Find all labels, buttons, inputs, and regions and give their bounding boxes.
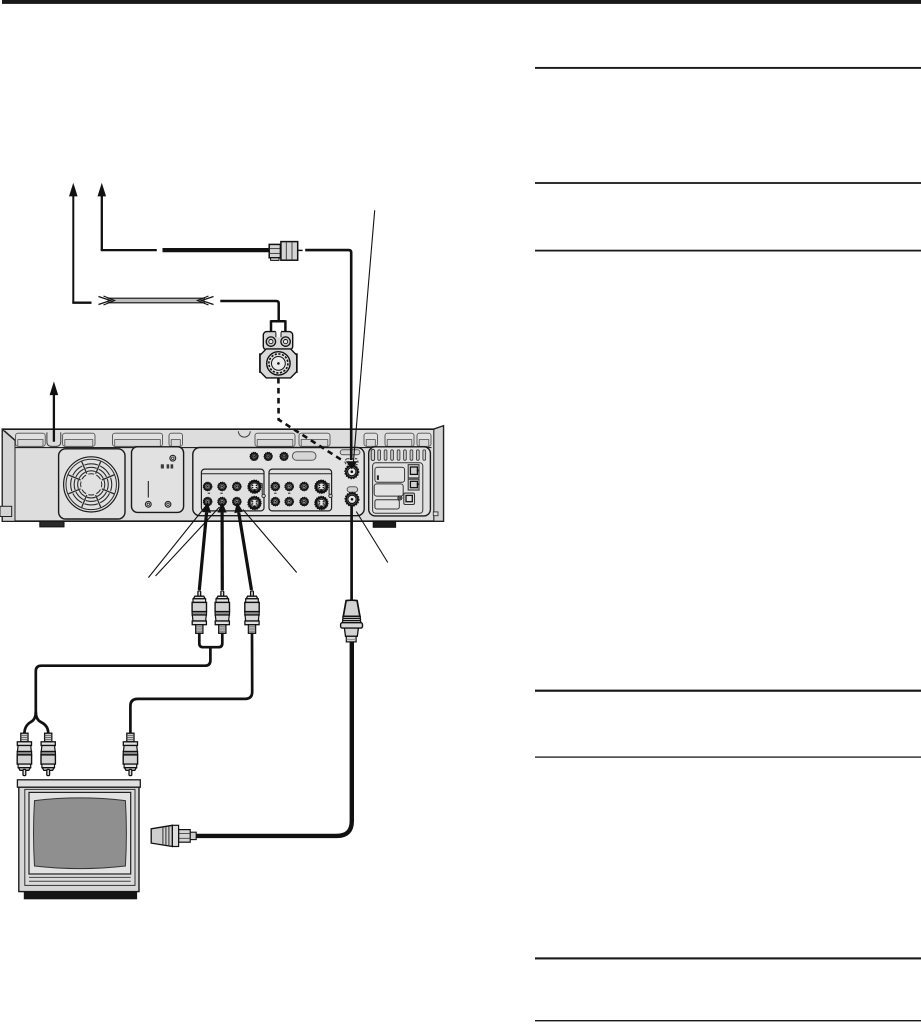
300-to-75 ohm matching transformer <box>260 331 298 378</box>
coaxial cable segment <box>163 248 270 252</box>
AV OUT jack L2 bottom <box>218 497 227 506</box>
AV jack R3 top <box>300 482 309 491</box>
VCR rear panel body <box>2 426 443 521</box>
right column horizontal rule 7 <box>535 1020 921 1021</box>
cable hook notch on VCR top <box>238 431 250 437</box>
merged AV cable to TV plugs <box>36 648 211 711</box>
audio jack T2 <box>264 452 272 460</box>
audio jack T1 <box>250 452 258 460</box>
audio cable arrow into jack L2 <box>218 502 227 590</box>
aux panel wire <box>147 481 149 498</box>
VCR left side face <box>2 430 16 522</box>
polarity dash marks <box>208 493 291 494</box>
RCA plug C (pointing down) <box>123 733 137 775</box>
jack panel <box>193 448 364 516</box>
right column horizontal rule 4 <box>535 690 921 692</box>
AV cable from plug P3 to plug C <box>130 633 252 734</box>
input group 2 box <box>269 469 332 511</box>
AC inlet <box>375 467 405 482</box>
fan grille <box>64 457 119 512</box>
cable split to plug B <box>36 712 48 734</box>
AV jack L1 top <box>203 482 212 491</box>
bracket right group <box>327 484 332 498</box>
fan panel <box>59 449 125 519</box>
screw on AC panel <box>398 496 402 500</box>
S-video jack left top <box>248 480 261 493</box>
cable split to plug A <box>24 712 35 735</box>
cable junction U of plugs P1,P2 <box>199 633 222 648</box>
RCA plug A (pointing down) <box>17 733 31 775</box>
lead-in cable to RF IN <box>305 250 351 460</box>
AV jack R3 bottom <box>300 497 309 506</box>
slot F on VCR top edge <box>299 433 330 446</box>
AV jack R2 top <box>285 482 294 491</box>
page header black bar <box>2 0 921 4</box>
pointer line 3 <box>243 510 297 573</box>
flat twin-lead ribbon cable <box>99 296 214 305</box>
bracket left group <box>260 484 265 498</box>
arrow out of VCR top notch <box>50 381 59 441</box>
RF OUT jack <box>345 492 359 506</box>
RF IN jack <box>345 465 359 479</box>
AC power panel <box>369 447 431 516</box>
pointer line 2 <box>156 507 220 576</box>
RCA plug P1 (pointing up) <box>192 591 206 633</box>
video cable arrow into jack L1 <box>199 502 211 590</box>
S-video jack right bottom <box>315 496 328 509</box>
slot G on VCR top edge <box>364 433 378 446</box>
AV OUT jack L3 bottom <box>233 497 242 506</box>
audio jack T3 <box>280 452 288 460</box>
label slot top <box>292 452 316 461</box>
AV OUT jack L1 bottom <box>203 497 212 506</box>
dashed connection line transformer to RF IN <box>278 378 344 462</box>
arrowhead at RF IN jack <box>346 461 358 469</box>
AV jack L3 top <box>233 482 242 491</box>
bottom slot <box>375 500 399 509</box>
twin lead wire to transformer <box>220 301 285 337</box>
auxiliary panel <box>132 447 184 513</box>
label slot above RF OUT <box>347 487 357 492</box>
AV jack R1 top <box>271 482 280 491</box>
VCR right foot <box>373 521 395 527</box>
VCR left foot <box>40 521 64 527</box>
input group 1 box <box>201 469 264 511</box>
TV set <box>17 780 140 900</box>
pointer line 4 <box>356 512 388 563</box>
arrow to antenna (second) <box>98 183 157 250</box>
audio cable arrow into jack L3 <box>234 502 251 590</box>
RCA plug P2 (pointing up) <box>215 591 229 633</box>
slot B on VCR top edge <box>63 433 95 446</box>
AC panel inner box <box>373 463 423 514</box>
switch square <box>404 493 415 504</box>
dashed marker box at RF IN <box>346 459 358 465</box>
modular jack B <box>408 479 419 490</box>
RF coax from RF OUT <box>350 505 353 602</box>
slot E on VCR top edge <box>255 433 295 446</box>
vent slots <box>378 450 426 461</box>
right column horizontal rule 2 <box>535 182 921 184</box>
arrow to antenna (left) <box>69 183 92 303</box>
AV jack L2 top <box>218 482 227 491</box>
pointer line to RF IN <box>353 210 375 467</box>
slot C on VCR top edge <box>113 433 163 446</box>
screw lower-right aux panel <box>165 501 171 507</box>
slot D on VCR top edge <box>169 433 183 446</box>
RF coax cable to TV <box>196 642 352 836</box>
screw lower-left aux panel <box>145 501 151 507</box>
S-video jack right top <box>315 480 328 493</box>
BAF label <box>161 464 173 468</box>
mid slot <box>374 484 403 496</box>
F-connector on RF coax (below VCR) <box>341 600 363 642</box>
pointer line 1 <box>148 506 205 578</box>
S-video jack left bottom <box>248 496 261 509</box>
antenna-wire notch on VCR top <box>47 432 61 446</box>
slot H on VCR top edge <box>385 433 414 446</box>
label slot above RF IN <box>340 450 360 455</box>
F-connector on antenna cable <box>269 242 302 261</box>
slot A on VCR top edge <box>16 433 46 446</box>
AV jack R2 bottom <box>285 497 294 506</box>
F-connector at TV end <box>151 825 196 846</box>
modular jack A <box>408 465 419 478</box>
right column horizontal rule 1 <box>535 67 921 69</box>
vent bar <box>371 449 374 460</box>
screw on aux panel <box>170 455 176 461</box>
RCA plug B (pointing down) <box>41 733 55 775</box>
right column horizontal rule 5 <box>535 756 921 757</box>
AV jack R1 bottom <box>271 497 280 506</box>
VCR left side protrusion <box>0 506 12 516</box>
RCA plug P3 (pointing up) <box>245 591 259 633</box>
VCR side vent rect <box>433 512 438 516</box>
slot I on VCR top edge <box>417 433 431 446</box>
right column horizontal rule 6 <box>535 957 921 959</box>
right column horizontal rule 3 <box>535 250 921 252</box>
